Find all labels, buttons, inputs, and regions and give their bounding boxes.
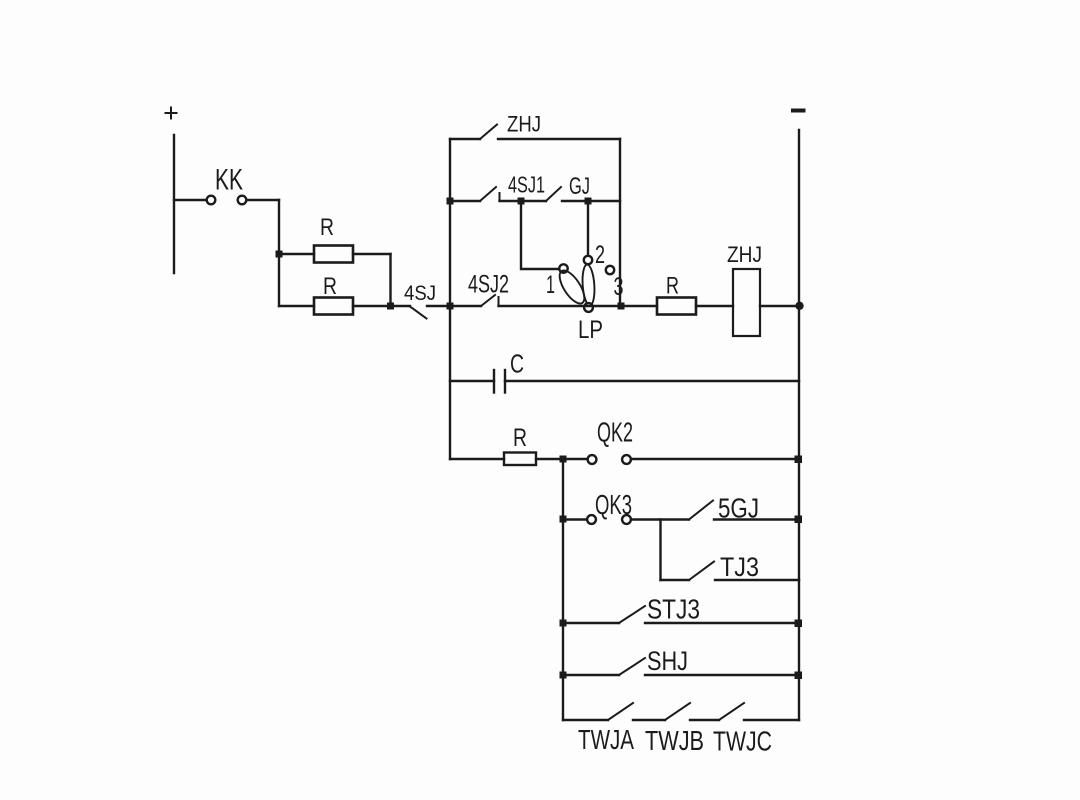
wire 4SJ to ZHJ-box left rail	[427, 305, 450, 307]
capacitor C right plate	[504, 370, 506, 393]
node junction at 521 on 4SJ1 row	[518, 198, 525, 205]
switch GJ blade	[546, 187, 561, 201]
wire left drop rail to bottom row	[562, 459, 564, 720]
node junction main row at 621	[618, 303, 625, 310]
switch TWJC blade	[719, 703, 744, 720]
svg-text:R: R	[320, 214, 334, 241]
switch TJ3 blade	[689, 562, 714, 581]
node junction negative bus STJ3 row	[795, 620, 803, 628]
svg-text:4SJ2: 4SJ2	[468, 271, 509, 299]
switch KK contact circles	[207, 196, 216, 205]
svg-text:GJ: GJ	[569, 173, 590, 200]
node terminal 3 circle of LP	[606, 266, 614, 274]
wire bottom row segment 3	[690, 719, 719, 721]
node junction left of R1	[276, 251, 283, 258]
wire TJ3 row left	[661, 579, 690, 581]
resistor R4 body	[504, 453, 536, 466]
lamp LP body oval A	[555, 267, 589, 308]
wire 5GJ to negative bus	[714, 518, 798, 520]
node junction arrow at negative bus main row	[795, 302, 803, 310]
wire ZHJ-box right vertical rail	[619, 139, 621, 306]
node terminal 1 circle of LP	[559, 264, 567, 272]
switch 5GJ blade	[689, 501, 713, 520]
svg-text:SHJ: SHJ	[647, 646, 688, 676]
svg-text:R: R	[666, 273, 679, 300]
wire R4 to QK2	[536, 458, 588, 460]
wire corner down to resistor branch	[278, 200, 280, 306]
wire STJ3 to negative bus	[645, 622, 798, 624]
svg-text:QK3: QK3	[595, 489, 632, 520]
svg-text:STJ3: STJ3	[647, 594, 700, 625]
wire 4SJ1 to GJ contact	[500, 200, 547, 202]
wire ZHJ-box left vertical rail	[449, 139, 451, 459]
switch TWJB blade	[665, 703, 690, 720]
switch 4SJ1 fixed contact tick	[499, 193, 501, 201]
wire main row 4SJ2 to resistor R3	[499, 305, 658, 307]
resistor R1 body	[314, 246, 353, 263]
wire ZHJ coil to negative bus	[760, 305, 798, 307]
svg-text:1: 1	[546, 271, 555, 299]
svg-text:4SJ: 4SJ	[404, 282, 436, 305]
svg-text:TWJB: TWJB	[645, 725, 704, 756]
wire negative bus vertical	[798, 130, 800, 720]
node junction left rail SHJ row	[560, 672, 567, 679]
wire STJ3 row left	[563, 622, 619, 624]
relay coil ZHJ body	[733, 269, 760, 336]
wire QK3 to 5GJ branch	[631, 518, 689, 520]
node junction negative bus QK2 row	[795, 456, 803, 464]
svg-text:R: R	[513, 424, 527, 452]
wire capacitor row right to negative bus	[505, 380, 799, 382]
wire QK3 row left	[563, 518, 587, 520]
wire lower-left corner to R4	[450, 458, 504, 460]
lamp LP body oval B	[581, 264, 595, 306]
wire R3 to ZHJ coil	[696, 305, 733, 307]
wire capacitor row left	[450, 380, 494, 382]
wire from KK to corner	[247, 199, 280, 201]
wire bottom row segment 2	[633, 719, 665, 721]
switch QK2 contact circles	[588, 455, 597, 464]
node - (negative bus terminal label)	[793, 109, 804, 113]
svg-text:ZHJ: ZHJ	[507, 112, 541, 137]
node junction left rail STJ3 row	[560, 620, 567, 627]
wire R1 to right rail	[353, 253, 391, 255]
svg-text:C: C	[510, 349, 524, 379]
wire to resistor R1	[279, 253, 314, 255]
switch QK3 contact circles	[587, 515, 596, 524]
svg-text:R: R	[323, 273, 337, 300]
wire to resistor R2	[279, 305, 314, 307]
wire TJ3 branch vertical	[659, 520, 661, 581]
node terminal 2 circle of LP	[584, 256, 592, 264]
node junction negative bus 5GJ row	[795, 516, 803, 524]
svg-text:TJ3: TJ3	[720, 552, 759, 582]
switch ZHJ blade	[480, 125, 497, 140]
switch 4SJ2 blade	[481, 295, 495, 306]
svg-text:TWJC: TWJC	[713, 726, 772, 757]
svg-text:LP: LP	[578, 316, 603, 344]
wire SHJ to negative bus	[645, 674, 798, 676]
wire from + bus to KK	[174, 199, 207, 201]
wire R2 to junction	[353, 305, 410, 307]
switch SHJ blade	[619, 658, 645, 675]
node junction left rail QK3 row	[560, 516, 567, 523]
switch 4SJ2 fixed contact tick	[498, 297, 500, 306]
wire bottom row segment 4	[744, 719, 799, 721]
wire right rail of parallel resistors	[389, 254, 391, 306]
wire drop to lamp terminal 1	[521, 201, 559, 269]
switch 4SJ blade	[410, 307, 427, 319]
node junction negative bus SHJ row	[795, 672, 803, 680]
wire positive bus vertical	[173, 135, 175, 273]
wire SHJ row left	[563, 674, 619, 676]
wire drop to lamp terminal 2	[587, 201, 589, 256]
wire 4SJ1 row left	[450, 200, 480, 202]
node junction at 588 on 4SJ1 row	[585, 198, 592, 205]
switch STJ3 blade	[619, 606, 645, 623]
node bottom terminal circle of LP	[584, 303, 593, 312]
wire GJ row right	[562, 200, 620, 202]
wire ZHJ contact row right	[498, 138, 620, 140]
resistor R3 body	[657, 298, 696, 315]
svg-text:ZHJ: ZHJ	[727, 242, 762, 267]
switch 4SJ1 blade	[480, 187, 496, 201]
wire ZHJ contact row left	[450, 138, 480, 140]
svg-text:4SJ1: 4SJ1	[508, 172, 545, 198]
node + (positive bus terminal label)	[166, 108, 177, 119]
svg-text:TWJA: TWJA	[578, 724, 634, 755]
node junction left rail at 4SJ1 row	[447, 198, 454, 205]
node junction left rail at main row	[447, 303, 454, 310]
node junction right of R2	[387, 303, 394, 310]
wire QK2 to negative bus	[631, 458, 798, 460]
svg-text:QK2: QK2	[597, 417, 633, 448]
resistor R2 body	[314, 298, 353, 315]
svg-text:KK: KK	[215, 164, 243, 197]
svg-text:5GJ: 5GJ	[718, 493, 759, 524]
switch TWJA blade	[608, 703, 633, 720]
svg-text:2: 2	[595, 241, 605, 269]
wire TJ3 to negative bus	[715, 579, 799, 581]
wire main row left of 4SJ2	[450, 305, 481, 307]
svg-text:3: 3	[614, 273, 624, 301]
wire bottom row segment 1	[563, 719, 608, 721]
node junction left of QK2	[560, 456, 567, 463]
capacitor C left plate	[493, 370, 495, 393]
